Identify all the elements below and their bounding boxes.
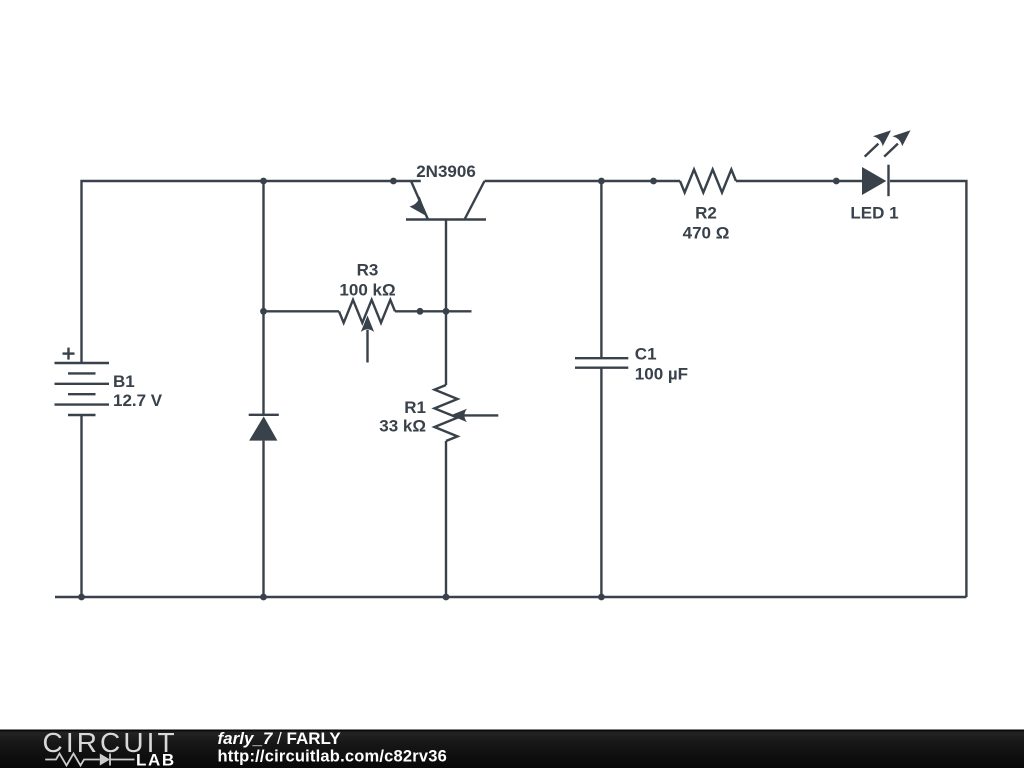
wire top rail right segment [485, 180, 681, 182]
potentiometer R3 [339, 300, 395, 363]
junction dot R3 right [417, 308, 424, 315]
svg-text:R2: R2 [695, 204, 717, 223]
svg-text:farly_7 / FARLY: farly_7 / FARLY [218, 729, 342, 748]
wire LED to right corner and right rail [890, 181, 966, 597]
LED LED1 [862, 130, 911, 196]
wire R3 row right lead [395, 310, 472, 312]
svg-text:100 kΩ: 100 kΩ [339, 281, 395, 300]
svg-text:R1: R1 [404, 398, 426, 417]
wire C1 bottom lead [600, 368, 602, 597]
junction dot C1 top [598, 178, 605, 185]
svg-text:R3: R3 [357, 261, 379, 280]
junction dot bottom C1 [598, 594, 605, 601]
junction dot base node [443, 308, 450, 315]
wire R1 bottom lead [445, 441, 447, 597]
svg-text:B1: B1 [113, 372, 135, 391]
logo resistor-diode symbol [45, 754, 134, 766]
junction dot LED anode [833, 178, 840, 185]
svg-text:2N3906: 2N3906 [416, 162, 476, 181]
wire bottom rail [55, 596, 966, 598]
transistor Q1 2N3906 [406, 181, 486, 220]
wire top rail left segment [82, 181, 421, 363]
junction dot emitter node [390, 178, 397, 185]
footer bar [0, 730, 1024, 768]
wire diode branch upper [262, 181, 264, 415]
resistor R2 [680, 170, 736, 193]
svg-text:C1: C1 [635, 345, 657, 364]
junction dot R2 left [650, 178, 657, 185]
battery plus sign [63, 348, 75, 360]
junction dot bottom battery [78, 594, 85, 601]
junction dot R3 left [260, 308, 267, 315]
wire transistor base lead [445, 220, 447, 312]
wire R3 row left lead [264, 310, 340, 312]
potentiometer R1 [435, 385, 499, 441]
capacitor C1 [575, 358, 628, 368]
battery B1 [55, 363, 110, 415]
wire R2 to LED [736, 180, 862, 182]
svg-text:http://circuitlab.com/c82rv36: http://circuitlab.com/c82rv36 [218, 748, 448, 766]
svg-text:LAB: LAB [136, 751, 176, 768]
svg-text:12.7 V: 12.7 V [113, 391, 163, 410]
junction dot bottom R1 [443, 594, 450, 601]
svg-text:470 Ω: 470 Ω [683, 224, 730, 243]
wire battery negative lead [80, 415, 82, 597]
diode D1 [249, 415, 279, 441]
svg-text:100 µF: 100 µF [635, 365, 688, 384]
junction dot top diode branch [260, 178, 267, 185]
wire R1 top lead [445, 311, 447, 385]
junction dot bottom diode [260, 594, 267, 601]
svg-text:LED 1: LED 1 [850, 204, 898, 223]
wire diode branch lower [262, 441, 264, 597]
wire C1 top lead [600, 181, 602, 358]
svg-text:33 kΩ: 33 kΩ [379, 417, 426, 436]
